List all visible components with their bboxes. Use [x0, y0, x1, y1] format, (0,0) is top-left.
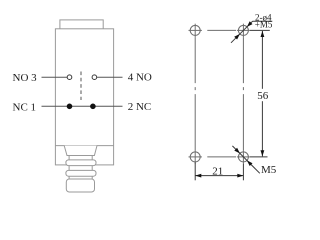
hole BL crosshair [189, 156, 202, 158]
hole TR crosshair [237, 29, 250, 31]
dimension 56 arrow down [261, 150, 265, 156]
dimension 21 extension right [242, 164, 244, 181]
leader diagonal BR hole [232, 146, 259, 173]
mounting hole bottom-right [238, 152, 248, 162]
terminal lead 4NO [97, 76, 123, 78]
plunger shaft segment 2 [68, 166, 70, 171]
centerline extension top right [250, 29, 270, 31]
plunger cap top [60, 20, 103, 29]
svg-text:21: 21 [212, 165, 223, 177]
svg-text:56: 56 [257, 90, 269, 102]
contact NC right dot [90, 104, 96, 110]
dimension 21 extension left [194, 162, 196, 180]
mounting hole top-right [238, 25, 248, 35]
switch body [55, 29, 113, 165]
centerline extension bottom right [250, 156, 268, 158]
plunger funnel trapezoid [64, 146, 97, 156]
contact NC left dot [67, 104, 73, 110]
svg-text:2 NC: 2 NC [128, 101, 152, 113]
svg-text:NO 3: NO 3 [13, 72, 38, 84]
plunger shaft segment 3 [68, 176, 70, 179]
leader diagonal TR hole [231, 21, 253, 43]
svg-text:M5: M5 [261, 164, 277, 176]
dimension 21 arrow right [237, 174, 243, 178]
contact NO right [92, 75, 97, 80]
svg-text:4 NO: 4 NO [128, 72, 152, 84]
dimension 56 arrow up [261, 31, 265, 37]
svg-text:NC 1: NC 1 [13, 101, 37, 113]
svg-text:+M5: +M5 [255, 20, 273, 30]
actuator dashed line [80, 72, 82, 101]
hole BR crosshair [237, 156, 250, 158]
centerline vertical left [194, 37, 196, 150]
terminal lead NO3 [42, 76, 68, 78]
body shoulder line [55, 145, 113, 147]
centerline horizontal top [207, 29, 236, 31]
plunger ring band 1 [66, 160, 96, 166]
mounting hole top-left [190, 25, 200, 35]
dimension 56 line lower [261, 101, 263, 156]
terminal lead NC row [42, 105, 123, 107]
hole TL crosshair [189, 29, 202, 31]
centerline vertical right [242, 37, 244, 150]
dimension 56 line upper [261, 31, 263, 89]
dimension 21 arrow left [195, 174, 201, 178]
leader TR arrowhead upper [247, 21, 253, 27]
mounting hole bottom-left [190, 152, 200, 162]
leader TR arrowhead lower [234, 34, 240, 40]
plunger shaft segment 1 [68, 156, 70, 161]
leader BR arrowhead upper [234, 148, 240, 154]
contact NO left [67, 75, 72, 80]
dimension 21 line [195, 175, 243, 177]
plunger bottom cap [66, 179, 94, 192]
leader BR arrowhead lower [247, 160, 253, 166]
plunger ring band 2 [66, 170, 96, 176]
centerline horizontal bottom [207, 156, 236, 158]
leader tail 2-o4 [253, 20, 273, 22]
